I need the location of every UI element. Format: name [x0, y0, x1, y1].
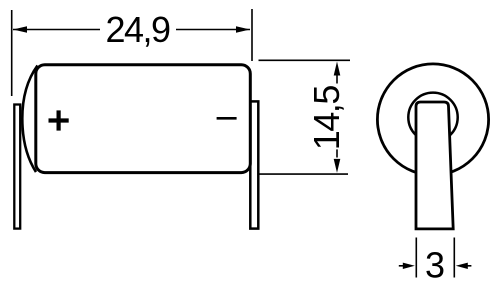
extension line right (24,9) [251, 9, 253, 61]
solder tab left [14, 105, 20, 229]
svg-text:24,9: 24,9 [105, 9, 170, 50]
inner circle (end view) [408, 93, 457, 142]
dimension arrow left (3) [399, 265, 404, 267]
outer circle (end view) [377, 64, 488, 175]
dimension line 14,5 top stub [336, 76, 338, 84]
dimension arrow left [13, 26, 27, 33]
extension line bottom (14,5) [259, 173, 348, 175]
extension line left (3) [415, 238, 417, 278]
dimension arrow down [334, 159, 341, 173]
dimension line 14,5 bottom stub [336, 149, 338, 157]
dimension arrow up [334, 62, 341, 76]
dimension line 24,9 left stub [13, 29, 100, 31]
svg-text:3: 3 [425, 245, 445, 282]
dimension arrow right (3) [456, 263, 468, 269]
dimension arrow right [236, 26, 250, 33]
battery left end cap curve [22, 66, 37, 173]
front tab (end view) [416, 102, 453, 229]
dimension line 24,9 right stub [176, 29, 250, 31]
svg-text:14,5: 14,5 [306, 86, 347, 151]
extension line left (24,9) [11, 10, 13, 96]
extension line top (14,5) [259, 59, 351, 61]
extension line right (3) [453, 238, 455, 278]
minus sign [217, 117, 237, 120]
plus sign [49, 118, 69, 122]
battery body [36, 65, 251, 173]
solder tab right [250, 101, 258, 228]
